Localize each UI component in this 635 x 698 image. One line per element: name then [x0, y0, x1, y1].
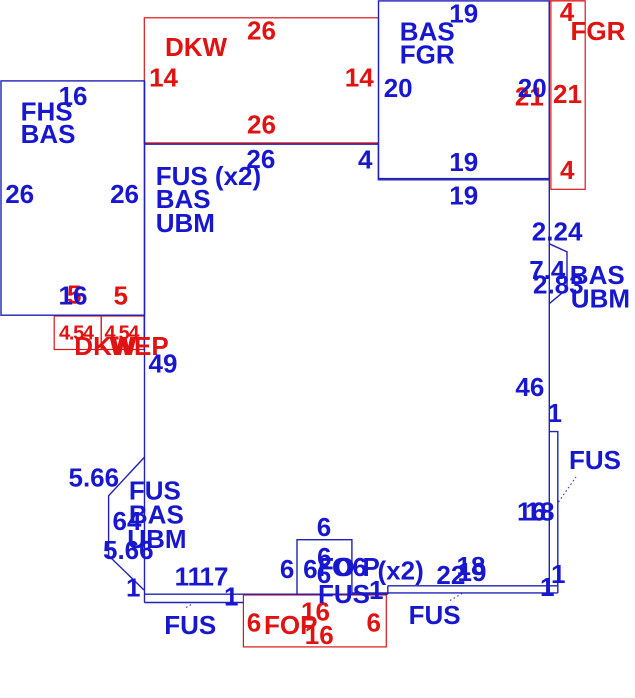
- bottom right band lower line: [352, 592, 558, 594]
- svg-text:26: 26: [5, 179, 34, 209]
- svg-text:5: 5: [114, 281, 128, 311]
- small FOP (x2) rect: [297, 540, 352, 595]
- svg-text:1: 1: [540, 572, 554, 602]
- room FOP outline (red, bottom): [243, 595, 386, 647]
- svg-text:19: 19: [449, 181, 478, 211]
- main outline left vertical wall: [144, 81, 146, 603]
- svg-text:18: 18: [526, 497, 555, 527]
- svg-text:6: 6: [367, 608, 381, 638]
- dotted leader FUS bottom left: [186, 604, 193, 608]
- pentagon bay bottom left: [109, 457, 145, 590]
- svg-text:20: 20: [518, 73, 547, 103]
- svg-text:FUS: FUS: [164, 610, 216, 640]
- room FGR outline (red): [551, 1, 585, 189]
- room FHS BAS outline (blue): [1, 81, 145, 315]
- svg-text:1: 1: [126, 573, 140, 603]
- svg-text:(x2): (x2): [378, 556, 424, 586]
- svg-text:1: 1: [548, 398, 562, 428]
- svg-text:2.24: 2.24: [532, 217, 583, 247]
- svg-text:UBM: UBM: [127, 524, 186, 554]
- main outline top wall below DKW: [145, 144, 550, 180]
- main outline right vertical wall: [548, 1, 550, 593]
- svg-text:UBM: UBM: [156, 208, 215, 238]
- svg-text:14: 14: [345, 62, 374, 92]
- bottom left band lower line: [144, 602, 243, 604]
- bottom left band top line: [144, 593, 387, 595]
- room BAS FGR outline (blue): [379, 1, 550, 179]
- svg-text:FUS: FUS: [409, 600, 461, 630]
- red FGR top tie line: [549, 0, 585, 2]
- svg-text:16: 16: [305, 620, 334, 650]
- door bump polygon right side: [549, 244, 567, 304]
- svg-text:20: 20: [384, 73, 413, 103]
- svg-text:21: 21: [553, 79, 582, 109]
- narrow FUS wall rect right: [549, 432, 558, 593]
- svg-text:49: 49: [149, 348, 178, 378]
- svg-text:DKW: DKW: [165, 32, 228, 62]
- svg-text:19: 19: [458, 557, 487, 587]
- svg-text:26: 26: [247, 16, 276, 46]
- svg-text:BAS: BAS: [21, 119, 76, 149]
- svg-text:4: 4: [358, 145, 373, 175]
- svg-text:FGR: FGR: [400, 40, 455, 70]
- svg-text:11: 11: [175, 561, 203, 591]
- svg-text:6: 6: [247, 608, 261, 638]
- svg-text:16: 16: [59, 281, 88, 311]
- dotted leader FUS bottom right: [450, 594, 462, 601]
- svg-text:46: 46: [515, 372, 544, 402]
- svg-text:26: 26: [247, 109, 276, 139]
- svg-text:26: 26: [110, 179, 139, 209]
- bottom step vertical: [387, 586, 389, 594]
- svg-text:FUS: FUS: [318, 579, 370, 609]
- svg-text:19: 19: [449, 147, 478, 177]
- svg-text:6: 6: [317, 512, 331, 542]
- svg-text:6: 6: [280, 554, 294, 584]
- svg-text:1: 1: [369, 575, 383, 605]
- svg-text:FGR: FGR: [571, 16, 626, 46]
- bottom right band top line: [388, 585, 558, 587]
- svg-text:1: 1: [224, 581, 238, 611]
- svg-text:4: 4: [560, 155, 575, 185]
- dotted leader FUS right: [559, 477, 577, 502]
- svg-text:6: 6: [303, 554, 317, 584]
- svg-text:14: 14: [149, 62, 178, 92]
- red boxes 4.54 pair: [54, 316, 101, 350]
- svg-text:5.66: 5.66: [69, 463, 120, 493]
- room DKW outline (red): [144, 18, 378, 143]
- svg-text:FUS: FUS: [569, 445, 621, 475]
- svg-text:UBM: UBM: [571, 284, 630, 314]
